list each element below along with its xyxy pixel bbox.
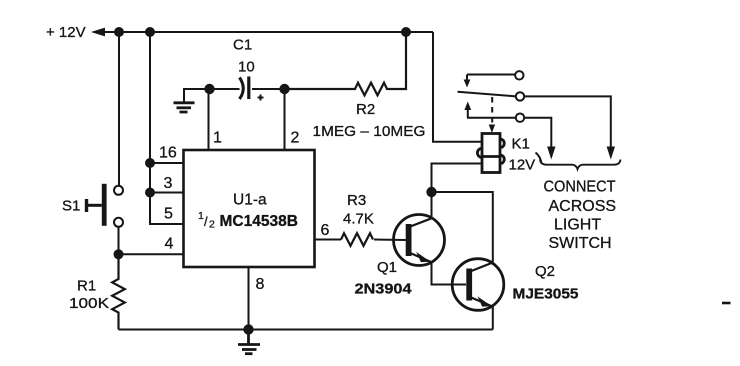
svg-text:LIGHT: LIGHT	[554, 217, 601, 234]
resistor R3	[341, 233, 373, 246]
pin 5 label	[164, 206, 173, 223]
svg-text:MC14538B: MC14538B	[220, 213, 298, 230]
K1 value 12V	[509, 157, 536, 174]
U1-a label	[233, 192, 267, 209]
R3 value 4.7K	[343, 211, 374, 228]
wire Q2 emitter down	[492, 306, 494, 329]
capacitor C1	[240, 77, 264, 101]
svg-text:16: 16	[159, 145, 177, 162]
wire bottom ground rail	[119, 329, 493, 331]
transistor Q1	[394, 215, 445, 266]
resistor R1	[112, 254, 125, 329]
svg-text:8: 8	[256, 276, 265, 293]
wire middle contact to right arrow	[524, 96, 615, 159]
svg-text:1MEG – 10MEG: 1MEG – 10MEG	[313, 123, 426, 140]
svg-text:3: 3	[164, 175, 173, 192]
junction top rail / S1 feed	[114, 27, 124, 37]
wire node to relay coil bottom	[432, 164, 483, 193]
wire R3 to Q1 base	[374, 239, 406, 242]
svg-text:C1: C1	[233, 37, 252, 54]
wire pin 8 vertical	[248, 267, 250, 330]
wire node to Q2 collector	[432, 192, 493, 262]
pin 6 label	[321, 222, 330, 239]
stray dash mark	[722, 302, 731, 305]
junction C1 left / pin 1	[204, 84, 214, 94]
note CONNECT	[544, 179, 616, 196]
junction ground rail / pin 8	[243, 324, 253, 334]
svg-text:4: 4	[165, 236, 174, 253]
wire Q1 collector up	[431, 192, 433, 218]
wire +12V rail to relay coil top	[433, 32, 482, 142]
svg-text:MJE3055: MJE3055	[513, 286, 579, 303]
C1 label	[233, 37, 252, 54]
svg-text:1: 1	[213, 130, 222, 147]
dashed armature link	[489, 97, 495, 133]
svg-text:CONNECT: CONNECT	[544, 179, 616, 196]
Q1 label	[377, 259, 397, 276]
K1 label	[512, 136, 530, 153]
svg-text:S1: S1	[62, 198, 80, 215]
svg-text:Q1: Q1	[377, 259, 397, 276]
svg-text:R3: R3	[347, 192, 366, 209]
svg-text:2N3904: 2N3904	[355, 281, 413, 298]
note LIGHT	[554, 217, 601, 234]
R2 label	[356, 101, 375, 118]
U1-a part number 1/2 MC14538B	[198, 210, 298, 231]
svg-text:10: 10	[238, 59, 255, 76]
brace under arrows	[540, 160, 621, 170]
wire C1 left lead	[210, 88, 240, 90]
junction top rail / VDD pins feed	[145, 27, 155, 37]
wire pin 4	[119, 253, 184, 255]
wire pin 6	[315, 239, 342, 241]
note ACROSS	[549, 198, 617, 215]
junction pin 16	[145, 158, 155, 168]
relay coil K1	[477, 134, 504, 173]
svg-text:K1: K1	[512, 136, 530, 153]
squiggle after 12V	[536, 153, 542, 164]
svg-text:100K: 100K	[69, 295, 109, 312]
junction top rail / R2	[401, 27, 411, 37]
relay contact top terminal	[464, 71, 524, 87]
wire Q1 emitter to Q2 base	[432, 262, 467, 285]
junction C1 right / pin 2	[279, 84, 289, 94]
svg-text:4.7K: 4.7K	[343, 211, 374, 228]
R2 value 1MEG - 10MEG	[313, 123, 426, 140]
svg-text:U1-a: U1-a	[233, 192, 267, 209]
pin 8 label	[256, 276, 265, 293]
wire S1 bottom to pin4 junction	[118, 227, 120, 255]
pin 2 label	[291, 130, 300, 147]
junction pin 3	[145, 188, 155, 198]
transistor Q2	[452, 259, 504, 311]
svg-text:2: 2	[209, 219, 215, 231]
relay armature	[458, 92, 525, 101]
armature motion up arrow	[464, 102, 471, 118]
wire pin 2 vertical	[284, 89, 286, 150]
wire bottom contact to left arrow	[524, 118, 555, 160]
svg-text:12V: 12V	[509, 157, 536, 174]
Q2 label	[535, 263, 555, 280]
wire top +12V rail	[98, 31, 433, 33]
pin 4 label	[165, 236, 174, 253]
ground (bottom)	[238, 330, 260, 354]
svg-text:ACROSS: ACROSS	[549, 198, 617, 215]
svg-text:6: 6	[321, 222, 330, 239]
S1 label	[62, 198, 80, 215]
svg-text:5: 5	[164, 206, 173, 223]
wire pin 1 vertical	[208, 89, 210, 150]
C1 value 10	[238, 59, 255, 76]
pin 3 label	[164, 175, 173, 192]
Q2 part MJE3055	[513, 286, 579, 303]
svg-text:+ 12V: + 12V	[46, 24, 86, 41]
pin 1 label	[213, 130, 222, 147]
wire C1 right lead	[252, 88, 285, 90]
svg-text:Q2: Q2	[535, 263, 555, 280]
R3 label	[347, 192, 366, 209]
svg-text:R1: R1	[77, 278, 96, 295]
switch S1	[87, 184, 124, 227]
pin 16 label	[159, 145, 177, 162]
relay contact bottom terminal	[467, 114, 524, 122]
op IC U1-a box	[184, 150, 315, 267]
resistor R2	[285, 32, 407, 95]
+12V arrow	[91, 28, 105, 37]
Q1 part 2N3904	[355, 281, 413, 298]
R1 label	[77, 278, 96, 295]
svg-text:/: /	[204, 214, 208, 229]
ground (near C1)	[174, 89, 210, 112]
junction pin 4 / S1 / R1	[114, 249, 124, 259]
note SWITCH	[549, 235, 612, 252]
svg-text:2: 2	[291, 130, 300, 147]
svg-text:SWITCH: SWITCH	[549, 235, 612, 252]
junction collector node	[426, 187, 436, 197]
wire pin 3	[150, 192, 184, 194]
wire VDD feed vertical to pin 5	[150, 32, 184, 224]
svg-text:R2: R2	[356, 101, 375, 118]
node +12V label	[46, 24, 86, 41]
wire pin 16	[150, 162, 184, 164]
wire S1 feed vertical	[118, 32, 120, 186]
R1 value 100K	[69, 295, 109, 312]
